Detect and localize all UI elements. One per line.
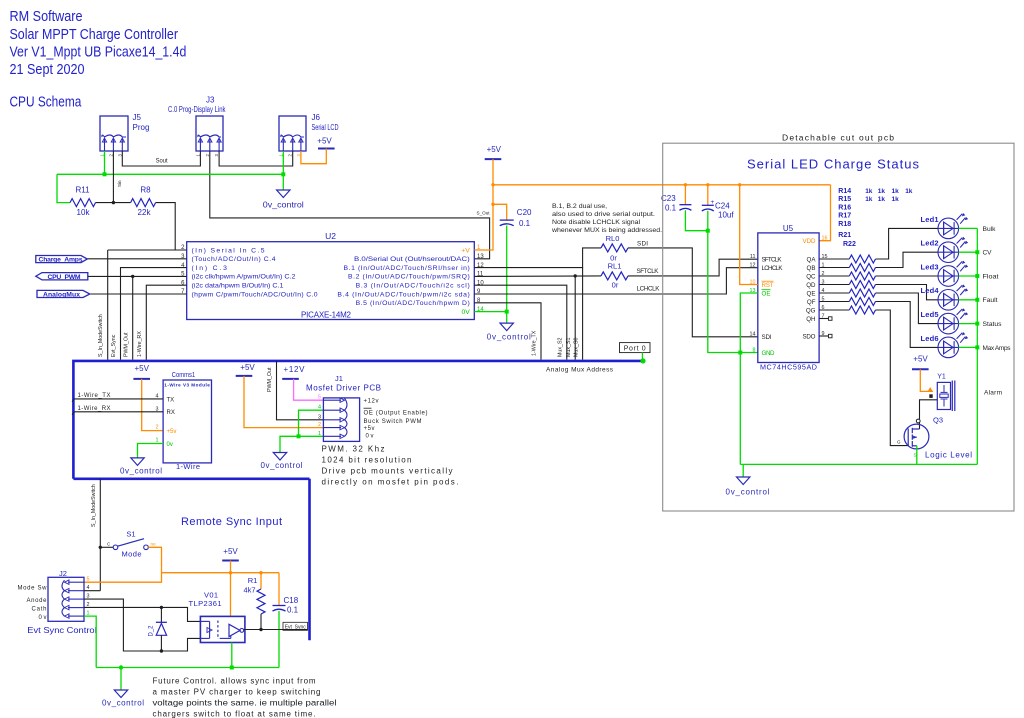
wire gnd net down to U5 GND (green) <box>708 231 758 353</box>
svg-text:J1: J1 <box>335 374 343 383</box>
svg-text:CPU Schema: CPU Schema <box>10 95 83 111</box>
svg-text:B.5 (In/Out/ADC/Touch/hpwm D): B.5 (In/Out/ADC/Touch/hpwm D) <box>356 300 470 307</box>
svg-text:Prog: Prog <box>133 123 150 132</box>
svg-text:+5V: +5V <box>223 547 238 556</box>
wire U2 pin7 from AnalogMux <box>90 293 187 295</box>
svg-text:Mosfet Driver PCB: Mosfet Driver PCB <box>306 384 381 393</box>
wire opto gnd (green) <box>231 643 233 668</box>
svg-text:0v_control: 0v_control <box>102 699 144 708</box>
svg-text:RM Software: RM Software <box>10 9 83 25</box>
svg-text:+5V: +5V <box>317 137 332 146</box>
svg-text:Status: Status <box>983 321 1003 328</box>
wire R8 to U2 pin2 net <box>156 203 176 250</box>
Y1 pin marker <box>929 394 932 398</box>
wire branch to C20 (orange) <box>493 204 507 220</box>
wire J2 pin2 to opto anode <box>84 607 200 621</box>
junction <box>975 250 979 254</box>
svg-text:S_Out: S_Out <box>477 211 491 216</box>
frame middle box bottom edge <box>73 477 309 480</box>
wire QC to Led3 <box>876 275 939 277</box>
wire C18 drop (orange) <box>278 573 280 606</box>
svg-text:C24: C24 <box>715 202 730 211</box>
wire Q3 drain to Y1 <box>920 400 938 419</box>
resistor RL1 0r <box>601 272 628 280</box>
wire C24 to gnd (green) <box>707 211 709 231</box>
svg-text:1k: 1k <box>905 188 913 195</box>
svg-text:Cath: Cath <box>32 606 47 612</box>
wire U2 pin3 from Charge_Amps <box>87 258 186 260</box>
wire Led2 to green bus <box>959 251 978 253</box>
wire alarm gnd horizontal (green) <box>740 463 977 465</box>
junction <box>160 606 163 609</box>
svg-text:4: 4 <box>318 405 321 411</box>
svg-text:1k: 1k <box>865 188 873 195</box>
svg-text:1-Wire V3 Module: 1-Wire V3 Module <box>164 382 210 387</box>
resistor array R (QB) <box>819 267 849 269</box>
junction <box>975 298 979 302</box>
ground 0v_control (J1) <box>273 453 286 461</box>
diode D_2 <box>160 607 162 622</box>
wire J1 pin4 OE loop (green) <box>299 410 324 436</box>
svg-text:0v_control: 0v_control <box>263 201 304 210</box>
junction <box>975 322 979 326</box>
svg-text:J5: J5 <box>133 113 142 122</box>
wire rail to ground (green) <box>282 174 284 190</box>
svg-text:RL1: RL1 <box>608 262 622 271</box>
resistor array R (QG) <box>819 309 849 311</box>
optocoupler V01 TLP2361 <box>200 616 245 642</box>
wire S_Out J3.2 to U2 pin13 <box>210 151 490 259</box>
wire +12V to J1 pin5 (magenta) <box>294 379 324 400</box>
svg-text:+V: +V <box>461 247 470 254</box>
junction <box>229 571 232 574</box>
capacitor C20 0.1 <box>500 219 514 221</box>
wire QD to Led4 <box>876 285 939 300</box>
svg-text:VDD: VDD <box>803 238 817 245</box>
junction <box>574 274 577 277</box>
resistor array R (QA) <box>819 258 849 260</box>
frame detachable cut out pcb <box>663 143 1014 511</box>
wire Comms1 0v to ground (green) <box>138 444 164 458</box>
wire Led6 to green bus <box>959 346 978 348</box>
svg-text:SFTCLK: SFTCLK <box>762 257 783 264</box>
junction <box>103 172 107 176</box>
svg-text:+5v: +5v <box>364 426 375 432</box>
wire LED green bus vertical <box>976 228 978 464</box>
wire Led3 to green bus <box>959 275 978 277</box>
wire +5V to J1 pin2 (orange) <box>244 376 323 428</box>
svg-text:+12v: +12v <box>364 399 379 405</box>
resistor array R (QD) <box>819 284 849 286</box>
wire Mux_S2 vertical from B.3 <box>474 285 567 359</box>
svg-text:0v_control: 0v_control <box>261 461 303 470</box>
svg-text:16: 16 <box>822 236 828 242</box>
svg-text:Comms1: Comms1 <box>172 370 195 379</box>
LED Led6 <box>938 332 968 358</box>
svg-text:0v: 0v <box>167 442 173 448</box>
svg-text:SDI: SDI <box>762 334 772 341</box>
svg-text:G: G <box>897 440 901 445</box>
LED Led5 <box>938 308 968 334</box>
svg-text:J6: J6 <box>312 113 321 122</box>
svg-text:R21: R21 <box>838 232 851 239</box>
svg-text:R15: R15 <box>838 196 851 203</box>
svg-text:CPU_PWM: CPU_PWM <box>48 274 81 281</box>
wire B.2 to RL1 <box>474 275 601 278</box>
svg-text:R8: R8 <box>140 186 151 195</box>
wire +5V to Y1 (orange) <box>920 369 933 391</box>
wire J1 pin1 0v (green) <box>280 436 323 452</box>
svg-text:QC: QC <box>806 273 816 280</box>
wire U2 pin6 / 1-Wire_RX vertical <box>146 285 186 359</box>
svg-text:RX: RX <box>167 410 175 416</box>
svg-text:GND: GND <box>762 350 776 357</box>
wire C23 drop (orange) <box>684 185 686 205</box>
junction <box>738 351 742 355</box>
svg-text:OE (Output Enable): OE (Output Enable) <box>364 411 428 417</box>
svg-text:+5V: +5V <box>240 363 255 372</box>
svg-text:0v_control: 0v_control <box>487 333 531 342</box>
junction <box>706 229 710 233</box>
svg-text:Led1: Led1 <box>921 215 939 224</box>
ground 0v_control (U2) <box>500 323 513 331</box>
capacitor C18 0.1 <box>273 605 286 607</box>
wire B.1 to RL0 <box>474 248 601 268</box>
svg-text:S_In_ModeSwitch: S_In_ModeSwitch <box>98 314 104 357</box>
svg-text:B.4 (In/Out/ADC/Touch/pwm/i2c: B.4 (In/Out/ADC/Touch/pwm/i2c sda) <box>337 291 469 298</box>
svg-text:(hpwm C/pwm/Touch/ADC/Out/In): (hpwm C/pwm/Touch/ADC/Out/In) C.0 <box>192 291 318 298</box>
svg-text:1k: 1k <box>892 196 900 203</box>
svg-text:C.0 Prog-Display Link: C.0 Prog-Display Link <box>168 105 226 114</box>
svg-text:U2: U2 <box>325 231 336 241</box>
svg-text:R22: R22 <box>843 241 856 248</box>
LED Led3 <box>938 261 968 287</box>
wire J5.2 down to node <box>112 151 114 203</box>
svg-text:1024 bit resolution: 1024 bit resolution <box>322 456 412 465</box>
svg-text:Led2: Led2 <box>921 239 939 248</box>
U5 SDO no-connect stub <box>819 335 828 337</box>
svg-text:Q3: Q3 <box>933 415 943 424</box>
svg-text:Led6: Led6 <box>921 334 939 343</box>
wire 1-Wire_TX vertical from B.5 <box>474 303 541 360</box>
wire Mux_S0 vertical from B.1 <box>582 268 584 360</box>
svg-text:whenever MUX is being addresse: whenever MUX is being addressed. <box>551 227 662 234</box>
svg-text:+5v: +5v <box>167 429 177 435</box>
svg-text:Serial LED Charge Status: Serial LED Charge Status <box>747 157 920 172</box>
wire S_In_ModeSwitch vertical <box>107 250 109 360</box>
svg-text:QF: QF <box>807 299 816 306</box>
svg-text:13: 13 <box>477 254 484 260</box>
buzzer Y1 <box>937 382 950 409</box>
svg-text:14: 14 <box>750 332 756 338</box>
svg-text:chargers switch to float at sa: chargers switch to float at same time. <box>153 710 316 718</box>
svg-text:2: 2 <box>318 422 321 428</box>
ground 0v_control (LED pcb) <box>737 477 750 485</box>
svg-text:+5V: +5V <box>913 355 928 364</box>
svg-text:Led5: Led5 <box>921 310 939 319</box>
svg-text:C18: C18 <box>284 596 299 605</box>
wire J3.3 to J6.2 <box>219 151 293 166</box>
wire C24 drop (orange) <box>707 185 709 206</box>
wire +5V down to U2 pin1 (orange) <box>474 159 493 250</box>
svg-text:TLP2361: TLP2361 <box>189 599 222 608</box>
net flag AnalogMux <box>37 290 90 297</box>
connector J3 C.0 Prog-Display Link <box>196 116 223 151</box>
svg-text:(Touch/ADC/Out/In) C.4: (Touch/ADC/Out/In) C.4 <box>192 256 276 263</box>
svg-text:Analog Mux Address: Analog Mux Address <box>546 367 614 374</box>
svg-text:22k: 22k <box>138 208 152 217</box>
svg-text:PWM_Out: PWM_Out <box>267 367 273 392</box>
svg-text:SDO: SDO <box>803 333 816 340</box>
junction <box>131 275 134 278</box>
wire +5V to opto Vcc (orange) <box>230 561 232 617</box>
svg-text:also used to drive serial outp: also used to drive serial output. <box>552 211 655 218</box>
transistor Q3 logic level MOSFET <box>904 424 929 449</box>
wire +5V rail remote (orange) <box>162 572 280 574</box>
svg-text:R14: R14 <box>838 188 851 195</box>
svg-text:Evt_Sync: Evt_Sync <box>111 334 117 357</box>
svg-text:S1: S1 <box>126 530 135 539</box>
svg-text:0.1: 0.1 <box>287 606 299 615</box>
connector J1 body <box>323 398 359 442</box>
svg-text:0r: 0r <box>612 281 619 290</box>
junction <box>706 183 709 186</box>
svg-text:1k: 1k <box>878 196 886 203</box>
wire R11 to node <box>96 202 131 204</box>
svg-text:11: 11 <box>750 254 756 260</box>
svg-text:1-Wire_RX: 1-Wire_RX <box>137 331 143 357</box>
resistor R8 22k <box>131 199 156 207</box>
svg-text:Mux_S0: Mux_S0 <box>573 338 579 357</box>
svg-text:SDI: SDI <box>637 241 648 248</box>
LED Led2 <box>938 237 968 263</box>
svg-text:Fault: Fault <box>983 297 998 304</box>
wire gnd stub (green) <box>742 464 744 477</box>
switch S1 Mode <box>113 545 118 550</box>
resistor R1 4k7 <box>260 573 262 589</box>
wire Mux_S1 vertical from B.2 <box>574 276 576 360</box>
wire opto output to Evt_Sync <box>244 629 283 631</box>
IC U5 MC74HC595AD body <box>758 233 819 363</box>
wire gnd stub (green) <box>120 668 122 691</box>
junction <box>119 665 123 669</box>
svg-text:CV: CV <box>983 250 993 257</box>
wire 0v rail (green) <box>57 173 283 175</box>
net label Evt_Sync <box>283 622 308 630</box>
wire PWM_Out to J1 pin3 <box>277 361 324 420</box>
svg-text:QG: QG <box>806 307 816 314</box>
ground 0v_control (remote) <box>114 690 127 698</box>
svg-text:Mux_S2: Mux_S2 <box>558 338 564 357</box>
svg-text:Serial LCD: Serial LCD <box>312 123 339 132</box>
svg-text:1-Wire: 1-Wire <box>176 462 200 471</box>
svg-text:21 Sept 2020: 21 Sept 2020 <box>10 62 85 78</box>
svg-text:R18: R18 <box>838 221 851 228</box>
svg-text:PICAXE-14M2: PICAXE-14M2 <box>301 310 352 319</box>
svg-text:Evt Sync Control: Evt Sync Control <box>27 625 97 635</box>
svg-text:Bulk: Bulk <box>983 226 997 233</box>
svg-text:Sout: Sout <box>156 157 168 164</box>
svg-text:B.3 (In/Out/ADC/Touch/i2c scl): B.3 (In/Out/ADC/Touch/i2c scl) <box>356 283 470 290</box>
junction <box>975 274 979 278</box>
svg-text:C23: C23 <box>661 194 676 203</box>
svg-text:AnalogMux: AnalogMux <box>43 291 80 298</box>
svg-text:Led3: Led3 <box>921 262 939 271</box>
wire QE to Led5 <box>876 293 939 324</box>
wire C18 to gnd (green) <box>278 611 280 668</box>
svg-text:B.1, B.2 dual use,: B.1, B.2 dual use, <box>552 203 607 210</box>
svg-text:RL0: RL0 <box>606 234 620 243</box>
svg-text:5: 5 <box>318 395 321 401</box>
svg-text:R11: R11 <box>75 186 90 195</box>
svg-text:Mux_S1: Mux_S1 <box>566 338 572 357</box>
junction <box>491 203 494 206</box>
svg-text:RST: RST <box>762 282 774 289</box>
svg-text:Drive pcb mounts vertically: Drive pcb mounts vertically <box>322 467 453 476</box>
svg-text:no: no <box>151 541 157 546</box>
connector J5 Prog <box>100 116 128 151</box>
svg-text:+5V: +5V <box>487 145 502 154</box>
svg-text:3: 3 <box>318 414 321 420</box>
svg-text:B.0/Serial Out (Out/hserout/D: B.0/Serial Out (Out/hserout/DAC) <box>354 256 470 263</box>
module Comms1 1-Wire body <box>163 380 211 463</box>
svg-text:a master PV charger to keep sw: a master PV charger to keep switching <box>153 688 321 697</box>
svg-text:B.2 (In/Out/ADC/Touch/pwm/SRQ): B.2 (In/Out/ADC/Touch/pwm/SRQ) <box>348 274 470 281</box>
svg-text:MC74HC595AD: MC74HC595AD <box>760 363 817 372</box>
svg-text:PWM. 32 Khz: PWM. 32 Khz <box>322 445 385 454</box>
svg-text:R16: R16 <box>838 204 851 211</box>
connector J6 Serial LCD <box>279 116 306 151</box>
svg-text:Max Amps: Max Amps <box>983 345 1012 352</box>
svg-text:Logic Level: Logic Level <box>925 451 972 460</box>
wire QF to Led6 <box>876 302 939 348</box>
wire J6 pin3 to +5V (orange) <box>301 149 326 164</box>
svg-text:4k7: 4k7 <box>243 585 255 594</box>
wire QA to Led1 <box>876 228 939 259</box>
wire LCHCLK B.4 to U5 pin12 <box>474 268 758 294</box>
svg-text:1: 1 <box>318 431 321 437</box>
svg-text:0.1: 0.1 <box>519 219 531 228</box>
svg-text:C20: C20 <box>517 208 532 217</box>
junction <box>99 546 102 549</box>
ground 0v_control (main rail) <box>277 190 290 198</box>
capacitor C23 0.1 <box>679 204 691 206</box>
junction <box>738 183 741 186</box>
svg-text:Charge_Amps: Charge_Amps <box>39 256 83 263</box>
wire QB to Led2 <box>876 252 939 267</box>
svg-text:QB: QB <box>807 265 816 272</box>
frame middle section (blue) <box>73 361 643 479</box>
resistor R11 10k <box>70 199 96 207</box>
svg-text:PWM_Out: PWM_Out <box>123 332 129 357</box>
svg-text:QE: QE <box>807 290 816 297</box>
node Analog Mux Address (green dot) <box>640 358 645 363</box>
resistor array R (QE) <box>819 292 849 294</box>
junction <box>975 345 979 349</box>
svg-text:Mode: Mode <box>122 550 142 559</box>
svg-text:10k: 10k <box>77 208 91 217</box>
LED Led1 <box>938 213 968 239</box>
junction <box>297 434 301 438</box>
net label Port 0 <box>620 343 651 353</box>
U5 OE wire to gnd (green) <box>740 293 758 353</box>
wire green rail to R11 <box>57 174 70 202</box>
junction <box>160 649 163 652</box>
U5 RST wire (orange) <box>740 185 758 285</box>
svg-text:Y1: Y1 <box>937 374 946 381</box>
capacitor C24 10uf polarized <box>702 204 714 206</box>
drain pin circle <box>916 419 920 423</box>
svg-text:1-Wire_RX: 1-Wire_RX <box>78 406 111 412</box>
wire VDD drop (orange) <box>819 185 830 241</box>
junction <box>684 183 687 186</box>
wire J6.1 to rail (green) <box>282 151 284 174</box>
svg-text:0V: 0V <box>461 309 470 316</box>
svg-text:1k: 1k <box>878 188 886 195</box>
svg-text:0.1: 0.1 <box>665 204 677 213</box>
svg-text:+5V: +5V <box>134 364 149 373</box>
svg-text:(i2c data/hpwm B/Out/In) C.1: (i2c data/hpwm B/Out/In) C.1 <box>192 283 284 290</box>
wire J2 pin4 to mode switch <box>84 590 100 592</box>
wire C23 to gnd net (green) <box>685 210 707 231</box>
wire Port 0 stub (green) <box>641 353 643 360</box>
resistor array R (QF) <box>819 301 849 303</box>
svg-text:Led4: Led4 <box>921 286 940 295</box>
svg-text:Ver V1_Mppt UB Picaxe14_1.4d: Ver V1_Mppt UB Picaxe14_1.4d <box>10 45 187 61</box>
svg-text:voltage points the same. ie mu: voltage points the same. ie multiple par… <box>153 699 337 708</box>
svg-text:+: + <box>711 199 715 206</box>
wire U2 pin5 from CPU_PWM <box>88 275 187 277</box>
svg-text:S: S <box>914 453 917 458</box>
svg-text:10uf: 10uf <box>718 210 734 219</box>
wire QG to Q3 gate <box>876 310 909 446</box>
connector J2 body <box>48 577 84 621</box>
svg-text:Note disable LCHCLK signal: Note disable LCHCLK signal <box>552 219 640 226</box>
svg-text:Mode Sw: Mode Sw <box>18 586 48 592</box>
LED Led4 <box>938 284 968 310</box>
wire J2 pin1 to gnd (green) <box>84 616 96 667</box>
svg-text:1k: 1k <box>892 188 900 195</box>
svg-text:Port 0: Port 0 <box>624 346 646 353</box>
svg-text:(i2c clk/hpwm A/pwm/Out/In) C.: (i2c clk/hpwm A/pwm/Out/In) C.2 <box>192 274 296 281</box>
svg-text:R17: R17 <box>838 213 851 220</box>
svg-text:B.1 (In/Out/ADC/Touch/SRI/hser: B.1 (In/Out/ADC/Touch/SRI/hser in) <box>344 265 470 272</box>
svg-text:Remote Sync Input: Remote Sync Input <box>181 516 282 528</box>
wire SDI to U5 pin14 <box>628 248 758 337</box>
frame remote sync right edge (blue) <box>308 479 311 641</box>
wire gnd vertical to bottom (green) <box>739 353 741 465</box>
svg-text:1-Wire_TX: 1-Wire_TX <box>532 330 538 356</box>
junction <box>230 666 234 670</box>
svg-text:1-Wire_TX: 1-Wire_TX <box>78 393 111 399</box>
svg-text:Future Control. allows sync in: Future Control. allows sync input from <box>153 677 316 686</box>
wire C20 to U2 0V (green) <box>506 226 508 324</box>
svg-text:J2: J2 <box>59 569 67 578</box>
svg-text:Detachable cut out pcb: Detachable cut out pcb <box>782 133 894 143</box>
wire Led4 to green bus <box>959 299 978 301</box>
svg-text:2: 2 <box>156 425 159 431</box>
junction node R11/R8/J5.2 <box>112 201 115 204</box>
svg-text:D_2: D_2 <box>149 625 155 637</box>
svg-text:Sin: Sin <box>117 180 122 187</box>
wire Led1 to green bus <box>959 227 978 229</box>
svg-text:8: 8 <box>753 347 756 353</box>
svg-text:Solar MPPT Charge Controller: Solar MPPT Charge Controller <box>10 27 179 43</box>
svg-text:Anode: Anode <box>27 598 48 604</box>
svg-text:LCHCLK: LCHCLK <box>637 285 661 292</box>
wire Led5 to green bus <box>959 323 978 325</box>
svg-text:U5: U5 <box>783 224 794 233</box>
